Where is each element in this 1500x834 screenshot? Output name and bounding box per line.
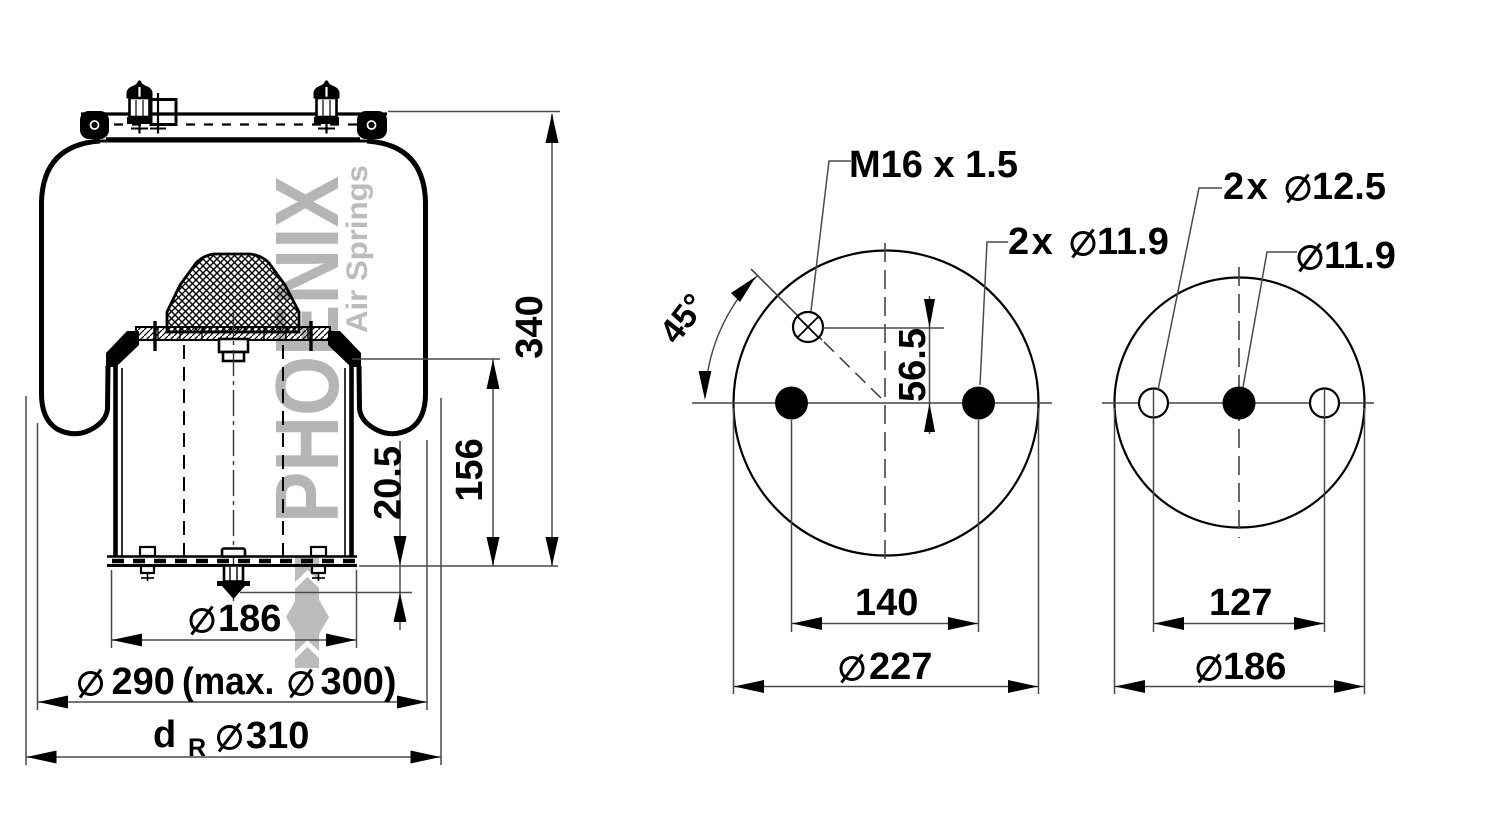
- hole left (open): [1139, 389, 1168, 418]
- dim D186 right: [1115, 646, 1364, 693]
- piston bottom plate: [107, 555, 357, 557]
- vertical center line dashed: [884, 243, 886, 563]
- central stud bottom: [217, 549, 250, 600]
- dim D186 bottom: [112, 570, 357, 648]
- svg-text:12.5: 12.5: [1312, 166, 1386, 208]
- svg-text:340: 340: [509, 295, 551, 358]
- circle D227: [734, 251, 1039, 556]
- piston hidden bore dashed right: [282, 345, 284, 556]
- extension lines right view: [1153, 420, 1155, 632]
- svg-text:R: R: [188, 734, 206, 762]
- dim 56.5: [892, 296, 935, 434]
- svg-text:2x: 2x: [1223, 166, 1270, 208]
- bolt hole left (filled): [775, 387, 808, 420]
- hole right (open): [1310, 389, 1339, 418]
- horizontal center line: [692, 402, 1052, 404]
- svg-text:186: 186: [1223, 646, 1286, 688]
- M16 hole: [793, 312, 823, 342]
- dim D290 (max. D300): [38, 423, 428, 710]
- svg-text:156: 156: [449, 438, 491, 501]
- extension lines mid: [791, 420, 793, 632]
- bellows top edge: [98, 140, 369, 143]
- top plate hidden dashed line: [96, 123, 372, 125]
- extension line at piston bottom: [359, 565, 558, 567]
- watermark logo ribbon: [286, 556, 329, 668]
- svg-text:11.9: 11.9: [1097, 221, 1169, 263]
- leader 2x D12.5: [1158, 188, 1222, 390]
- dim 20.5: [368, 441, 410, 630]
- center hole (filled): [1223, 387, 1256, 420]
- dim 340: [509, 114, 559, 567]
- bottom bolt left: [140, 547, 155, 581]
- extension line stud tip (20.5): [240, 592, 412, 594]
- circle D186: [1115, 278, 1365, 528]
- leader D11.9 right: [1243, 252, 1297, 387]
- svg-text:310: 310: [246, 715, 309, 757]
- piston outer wall left: [113, 365, 118, 557]
- piston shoulder wedge right: [328, 331, 361, 367]
- svg-text:290: 290: [112, 661, 175, 703]
- piston outer wall right: [349, 365, 354, 557]
- top plate top line: [81, 112, 387, 115]
- flange bolt right: [309, 321, 312, 351]
- flange separators: [158, 327, 308, 340]
- center nut under bumper: [219, 339, 248, 352]
- air fitting elbow: [150, 93, 176, 134]
- piston hidden bore dashed left: [183, 345, 185, 556]
- M16 hole h-line: [823, 327, 944, 329]
- top plate left crimp: [80, 111, 109, 139]
- leader 2x D11.9: [980, 242, 1008, 385]
- center line: [233, 310, 235, 601]
- bumper (cross-hatched): [167, 254, 299, 332]
- piston inner wall lines: [121, 368, 123, 556]
- dim 156: [449, 360, 500, 567]
- svg-text:127: 127: [1209, 582, 1272, 624]
- svg-text:227: 227: [869, 646, 932, 688]
- dim D227: [734, 646, 1038, 693]
- top plate right crimp: [357, 111, 387, 139]
- svg-text:Air Springs: Air Springs: [341, 165, 374, 333]
- blind nut left (top): [127, 80, 153, 133]
- bellows outline left half: [42, 141, 109, 434]
- svg-text:(max.: (max.: [182, 660, 274, 702]
- dim 140: [792, 582, 978, 630]
- svg-text:11.9: 11.9: [1324, 235, 1396, 277]
- bolt hole right (filled): [962, 387, 995, 420]
- svg-text:56.5: 56.5: [892, 328, 934, 402]
- piston shoulder wedge left: [106, 331, 139, 367]
- leader M16: [811, 161, 851, 311]
- svg-text:300): 300): [321, 661, 397, 703]
- flange hatched strip: [136, 327, 330, 340]
- top plate bottom line: [106, 137, 360, 140]
- 45 deg diagonal dashed to center: [824, 342, 886, 403]
- vertical center line dashed: [1238, 267, 1240, 538]
- svg-text:140: 140: [855, 582, 918, 624]
- dim dR D310: [26, 396, 441, 765]
- 45 deg diagonal solid: [751, 269, 822, 340]
- svg-text:186: 186: [218, 598, 281, 640]
- svg-text:d: d: [153, 714, 176, 756]
- horizontal center line: [1102, 402, 1374, 404]
- extension line top (340): [388, 111, 560, 113]
- dim 127: [1154, 582, 1324, 630]
- svg-text:M16 x 1.5: M16 x 1.5: [849, 144, 1018, 186]
- svg-text:2x: 2x: [1008, 221, 1055, 263]
- 45 deg arc: [705, 275, 758, 396]
- bottom bolt right: [311, 547, 326, 581]
- watermark group: [258, 165, 374, 668]
- extension line at piston top (156): [352, 358, 500, 360]
- svg-text:20.5: 20.5: [368, 446, 410, 520]
- bellows outline right half: [359, 141, 426, 434]
- label D11.9 right: [1299, 244, 1321, 272]
- flange bolt left: [153, 321, 156, 351]
- blind nut right (top): [314, 80, 340, 133]
